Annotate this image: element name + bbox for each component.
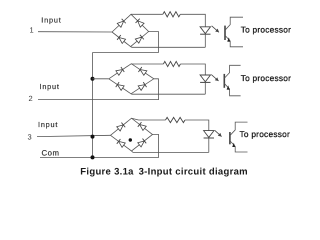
bridge D2 diode, right-to-top arm (138, 67, 147, 75)
wire input 1 to bridge D1 left corner (38, 31, 112, 33)
bridge D1 diode, left-to-top arm (117, 19, 126, 28)
bridge D3 diode, left-to-top arm (117, 123, 126, 132)
bridge D3 diode, bottom-to-right arm (138, 139, 147, 148)
optocoupler U1 phototransistor base bar (224, 26, 226, 40)
bridge rectifier D3 (diamond) (111, 118, 153, 151)
svg-text:1: 1 (30, 26, 34, 35)
wire bridge D3 top corner to R3 (132, 118, 166, 120)
bridge rectifier D2 (diamond) (109, 64, 154, 94)
bridge D1 diode, bottom-to-left arm (117, 35, 126, 44)
node input 3 crossing junction (91, 135, 95, 139)
resistor R2 (163, 61, 180, 66)
wire LED3 return to bridge D3 bottom corner (132, 151, 209, 152)
wire R1 to LED1 anode (180, 14, 205, 26)
wire bridge D2 top corner to R2 (131, 63, 163, 65)
optocoupler U3 phototransistor collector (230, 122, 248, 135)
wire bridge D1 top corner to R1 (131, 13, 163, 15)
optocoupler U2 phototransistor collector (224, 65, 240, 78)
bridge D2 diode, bottom-to-right arm (138, 82, 147, 90)
svg-text:Input: Input (40, 82, 60, 91)
svg-text:2: 2 (29, 94, 33, 103)
optocoupler U3 LED (204, 131, 214, 138)
wire input 2 under bridge D2 to right corner (38, 79, 159, 100)
wire LED1 cathode down (204, 34, 206, 47)
resistor R1 (163, 12, 181, 17)
optocoupler U3 phototransistor base bar (229, 132, 231, 144)
bridge D1 diode, bottom-to-right arm (135, 35, 144, 44)
wire input 3 to bridge D3 left corner (37, 135, 111, 136)
bridge D2 diode, left-to-top arm (116, 67, 125, 75)
svg-text:Com: Com (42, 149, 60, 158)
bridge D3 diode, bottom-to-left arm (117, 139, 126, 148)
optocoupler U2 LED (200, 75, 210, 82)
svg-text:Figure 3.1a: Figure 3.1a (80, 166, 134, 177)
wire LED3 cathode down (208, 138, 210, 153)
node common / bridge D2 junction (91, 77, 95, 81)
optocoupler U1 phototransistor collector (225, 17, 243, 30)
wire LED2 cathode down (204, 82, 206, 94)
optocoupler U1 LED (200, 27, 210, 34)
svg-text:To processor: To processor (241, 73, 292, 83)
wire R2 to LED2 anode (180, 64, 205, 75)
wire Com under bridge D3 to right corner (40, 135, 159, 158)
svg-text:3-Input circuit diagram: 3-Input circuit diagram (139, 166, 248, 177)
svg-text:3: 3 (28, 133, 32, 142)
wire LED2 return to bridge D2 bottom corner (131, 93, 205, 95)
svg-text:Input: Input (41, 15, 61, 24)
svg-text:To processor: To processor (240, 129, 291, 139)
node stray junction inside bridge D3 (129, 138, 132, 141)
node Com / common rail junction (91, 155, 95, 159)
wire R3 to LED3 anode (185, 120, 209, 131)
bridge D3 diode, right-to-top arm (138, 122, 147, 131)
optocoupler U3 phototransistor emitter with arrow (230, 141, 248, 152)
optocoupler U2 phototransistor emitter with arrow (224, 83, 240, 95)
wire bridge D1 right corner to common rail (93, 32, 159, 53)
bridge D1 diode, right-to-top arm (136, 19, 145, 28)
optocoupler U3 light arrow (215, 130, 222, 136)
wire common junction to bridge D2 left corner (93, 78, 109, 80)
bridge rectifier D1 (diamond) (112, 14, 149, 46)
optocoupler U2 phototransistor base bar (223, 74, 225, 88)
optocoupler U1 phototransistor emitter with arrow (225, 35, 243, 46)
optocoupler U1 light arrow (212, 26, 219, 33)
wire common vertical rail (92, 53, 94, 158)
optocoupler U2 light arrow (211, 75, 218, 81)
wire LED1 return to bridge D1 bottom corner (131, 46, 206, 49)
svg-text:To processor: To processor (241, 25, 292, 35)
resistor R3 (166, 117, 186, 122)
bridge D2 diode, bottom-to-left arm (116, 82, 125, 90)
svg-text:Input: Input (38, 120, 58, 129)
